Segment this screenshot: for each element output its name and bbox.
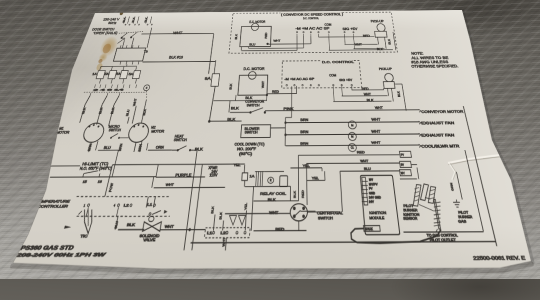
switch blade 2 xyxy=(131,32,137,37)
arrow into node xyxy=(117,40,122,43)
svg-text:CONTROLLER: CONTROLLER xyxy=(37,206,69,209)
svg-text:M: M xyxy=(351,136,354,139)
wire drop left xyxy=(251,187,253,231)
svg-text:WHT: WHT xyxy=(273,38,280,42)
svg-text:OTHERWISE SPECIFIED.: OTHERWISE SPECIFIED. xyxy=(411,64,459,69)
wire RED run xyxy=(254,230,307,232)
wire drop L3 xyxy=(147,28,152,48)
svg-text:COOL DOWN (TC): COOL DOWN (TC) xyxy=(234,143,264,147)
wire pole3 down xyxy=(109,105,114,126)
rectifier circle xyxy=(268,177,274,183)
wire WHT run xyxy=(225,212,291,214)
svg-text:(93°C): (93°C) xyxy=(239,152,253,156)
svg-text:BLK: BLK xyxy=(234,34,239,40)
terminal strip dashed box xyxy=(204,228,250,238)
svg-text:SIG +5V: SIG +5V xyxy=(342,27,359,31)
L mark xyxy=(78,211,82,215)
wire drop L1 xyxy=(122,40,124,48)
svg-text:MV/PV: MV/PV xyxy=(369,184,379,187)
terminal pin xyxy=(119,45,122,48)
blower switch box xyxy=(241,125,271,138)
svg-text:BRN: BRN xyxy=(300,118,308,122)
wire into L2 xyxy=(222,221,225,231)
svg-text:D.C. MOTOR: D.C. MOTOR xyxy=(243,67,265,72)
D.C. motor box xyxy=(238,75,268,95)
relay contact bars xyxy=(146,197,148,208)
wire long drop A xyxy=(184,151,197,250)
terminal pin xyxy=(131,61,134,65)
svg-text:WHT: WHT xyxy=(371,130,381,134)
svg-text:BLK: BLK xyxy=(227,118,236,122)
svg-text:COM: COM xyxy=(329,73,337,78)
spark gap triangles xyxy=(229,215,237,224)
terminal pin xyxy=(119,61,122,65)
svg-text:BLU: BLU xyxy=(364,168,372,171)
svg-text:PICK-UP: PICK-UP xyxy=(370,19,384,23)
wire RED to gas valve xyxy=(298,154,399,157)
junction xyxy=(120,37,123,39)
pilot igniter electrode B xyxy=(418,184,431,201)
svg-text:230-240 V: 230-240 V xyxy=(103,17,121,21)
svg-text:WHT: WHT xyxy=(165,184,174,187)
wire WHT relay feed xyxy=(154,186,225,188)
wire purple row xyxy=(112,163,244,166)
svg-text:L1: L1 xyxy=(147,204,153,207)
junction xyxy=(188,228,191,231)
contactor coil C1 xyxy=(348,144,357,152)
switch blade 1 xyxy=(122,33,128,38)
junction ec motor xyxy=(266,43,268,45)
motor terminal xyxy=(133,125,135,127)
terminal pin xyxy=(125,45,128,48)
diagram frame bottom border xyxy=(191,242,496,243)
wire row conveyor motor xyxy=(265,109,419,112)
high voltage spark cable xyxy=(351,228,444,243)
terminal pin xyxy=(137,61,140,65)
svg-text:GND: GND xyxy=(369,193,376,196)
pilot enclosure right border xyxy=(465,150,483,231)
pilot igniter electrode A xyxy=(410,184,424,206)
svg-text:IGNITION: IGNITION xyxy=(369,213,387,216)
terminal pin xyxy=(125,61,128,65)
svg-text:PICK-UP: PICK-UP xyxy=(379,67,393,72)
wire WHT down to fuse xyxy=(209,34,214,74)
solenoid valve SV1 xyxy=(142,222,152,231)
fuse 1A control xyxy=(243,165,246,173)
node supply terminals xyxy=(124,16,126,23)
svg-text:SENSOR: SENSOR xyxy=(403,218,419,221)
svg-text:ORN: ORN xyxy=(155,146,164,150)
svg-text:BURNER: BURNER xyxy=(458,216,474,219)
wire to red row xyxy=(298,221,300,231)
spark terminal box xyxy=(364,226,381,232)
wire YEL into T xyxy=(245,210,246,230)
svg-text:'OPEN' (FAILS): 'OPEN' (FAILS) xyxy=(93,31,118,35)
dashed lamp link xyxy=(145,91,148,99)
wire M1b down xyxy=(96,141,98,150)
wire purple stub xyxy=(156,176,205,178)
E.C. motor box xyxy=(240,26,271,46)
wire BLK blower row xyxy=(209,120,241,122)
svg-text:BLK #10: BLK #10 xyxy=(169,55,184,59)
svg-text:SOLENOID: SOLENOID xyxy=(139,235,161,239)
pilot burner body xyxy=(434,199,441,229)
fuse F4 xyxy=(120,71,129,79)
wire relay bottom bus xyxy=(245,185,291,187)
wire row cool blower xyxy=(286,144,420,147)
micro switch symbol xyxy=(111,134,118,138)
junction xyxy=(208,120,211,123)
svg-text:M: M xyxy=(351,125,354,128)
crease line xyxy=(446,151,540,163)
wire M2 feed2 xyxy=(132,106,136,124)
pilot bracket lines xyxy=(419,204,434,211)
svg-text:YEL: YEL xyxy=(245,202,248,210)
transformer T1 windings xyxy=(255,172,258,187)
svg-text:-M +M AC AC SP: -M +M AC AC SP xyxy=(296,27,330,31)
row chevrons xyxy=(419,109,421,112)
ground symbol xyxy=(456,200,457,202)
wire row exhaust fan 1 xyxy=(285,121,419,124)
ignition module box xyxy=(360,175,400,234)
node with circle xyxy=(123,38,125,40)
terminal pin xyxy=(131,45,134,48)
svg-text:50Hz: 50Hz xyxy=(108,21,117,25)
terminal ticks row xyxy=(94,84,95,88)
wire pole1 down xyxy=(80,105,85,123)
door switch S1 contacts (dashed link) xyxy=(119,32,143,34)
junction dc motor xyxy=(266,94,268,96)
svg-text:BRN: BRN xyxy=(300,143,309,146)
wire BLK#10 xyxy=(143,60,216,63)
wire module MV to valve xyxy=(405,157,408,175)
wire top of relay parts xyxy=(265,170,285,172)
svg-text:BURNER: BURNER xyxy=(403,209,419,212)
wire BLU run xyxy=(98,149,118,151)
wire GRN diagonal xyxy=(38,166,52,167)
svg-text:L2: L2 xyxy=(220,232,225,236)
svg-text:IGNITION: IGNITION xyxy=(403,214,421,217)
motor symbol M2 xyxy=(348,133,357,141)
svg-text:E.C. MOTOR: E.C. MOTOR xyxy=(249,20,266,24)
gas valve terminal BV xyxy=(400,161,412,167)
motor M1 xyxy=(81,123,106,142)
motor symbol M xyxy=(348,121,357,129)
svg-text:COOL/BLWR MTR: COOL/BLWR MTR xyxy=(421,145,460,149)
wire BLU drop xyxy=(115,216,118,229)
svg-text:BLK: BLK xyxy=(366,99,374,103)
junction xyxy=(284,134,286,137)
wire M2b down xyxy=(140,141,142,152)
wire left drop xyxy=(46,166,50,177)
wire BLK heat run xyxy=(193,149,197,151)
wire drop L2 xyxy=(131,38,134,48)
svg-text:WHT: WHT xyxy=(355,42,363,46)
svg-text:BLU: BLU xyxy=(249,42,255,46)
D.C. motor circle xyxy=(248,72,256,80)
terminals L1 L2 T T xyxy=(212,231,214,234)
BRN bus vertical xyxy=(284,118,286,146)
svg-text:RED: RED xyxy=(264,33,268,39)
pilot sensor rod xyxy=(426,186,439,203)
wire term1 drop xyxy=(86,207,88,216)
wire blower to bus xyxy=(270,127,285,129)
wire M2 down xyxy=(134,142,136,152)
wire WHT to control xyxy=(142,32,214,35)
wire GND drop xyxy=(457,172,463,199)
svg-text:BLK: BLK xyxy=(377,47,384,51)
solenoid coil circle xyxy=(148,216,154,221)
wire fuse to node (leaning) xyxy=(209,86,215,121)
svg-text:D.C. CONTROL: D.C. CONTROL xyxy=(303,16,319,20)
diagram frame right border xyxy=(463,106,497,246)
conveyor DC speed control dashed box xyxy=(229,12,398,53)
temperature controller dashed boundary xyxy=(76,195,169,198)
valve contact with arrow xyxy=(152,211,161,215)
fuse F1 9A xyxy=(211,74,220,87)
motor M2 xyxy=(127,123,150,142)
terminal box TB1 xyxy=(113,48,145,61)
junction xyxy=(284,121,286,123)
wire pole2 down xyxy=(97,105,102,125)
centrifugal switch xyxy=(290,204,307,221)
indicator lamp G xyxy=(143,85,150,91)
wire centrifugal a xyxy=(297,155,299,201)
wire WHT to gas valve xyxy=(306,162,399,165)
svg-text:WHT: WHT xyxy=(371,118,381,122)
wire motor bottom xyxy=(213,99,266,101)
gas valve terminal WV xyxy=(399,170,411,176)
svg-text:L1: L1 xyxy=(207,232,212,236)
wire centrifugal b xyxy=(305,164,308,205)
fuse F3 xyxy=(108,71,117,79)
wire drop mid xyxy=(289,186,291,201)
svg-text:22500-0061 REV. E: 22500-0061 REV. E xyxy=(473,256,527,262)
wire motor down xyxy=(235,95,237,101)
heat switch symbol xyxy=(172,149,178,151)
wire pickup right down xyxy=(402,84,406,111)
contactor linkage dashed xyxy=(84,91,146,94)
svg-text:115V: 115V xyxy=(209,174,218,179)
svg-text:C1: C1 xyxy=(351,147,354,150)
wire hi-limit feed xyxy=(52,165,80,167)
wire term4 drop xyxy=(117,207,119,216)
speed control wiring xyxy=(241,49,297,51)
svg-text:RED: RED xyxy=(361,87,369,91)
svg-text:RED: RED xyxy=(357,152,366,155)
wire to solenoid xyxy=(118,229,144,231)
svg-text:WHT: WHT xyxy=(360,160,369,163)
wire BLK run xyxy=(254,200,299,202)
switch stub xyxy=(301,210,316,212)
wire M1 down xyxy=(89,142,92,152)
switch blade xyxy=(294,210,300,216)
control 2 wiring xyxy=(352,89,384,91)
wire into L1 xyxy=(213,215,215,231)
motor terminal xyxy=(88,125,90,127)
wire lamp to M2 xyxy=(141,100,146,123)
wire WHT from valve xyxy=(160,229,206,231)
fuse F2 1A xyxy=(96,71,105,79)
pilot enclosure bottom border xyxy=(404,231,484,233)
svg-text:MODULE: MODULE xyxy=(369,217,385,220)
svg-text:NOTE:: NOTE: xyxy=(411,51,424,55)
wire from box to fuses xyxy=(125,65,128,67)
svg-text:L2: L2 xyxy=(123,205,129,208)
conveyor switch symbol xyxy=(230,111,251,113)
terminal pin xyxy=(137,45,140,48)
hi-limit switch contacts xyxy=(83,174,84,178)
svg-text:NO. 200°F: NO. 200°F xyxy=(237,147,257,151)
wire BLU drop to bus xyxy=(112,150,118,177)
wire BLU to module xyxy=(340,170,399,172)
fuse F5 xyxy=(132,71,140,79)
wire row exhaust fan 2 xyxy=(286,133,420,136)
svg-text:BRN: BRN xyxy=(300,130,308,134)
wire to purple row xyxy=(156,165,158,177)
arrow to gas control xyxy=(435,229,438,232)
svg-text:208-240V 60Hz 1PH 3W: 208-240V 60Hz 1PH 3W xyxy=(13,251,109,259)
E.C. motor circle xyxy=(251,23,259,30)
wire feed to fuses xyxy=(101,65,137,67)
wire M2 feed1 xyxy=(127,117,129,124)
wire ORN run xyxy=(148,149,172,151)
svg-text:2 4 6 14: 2 4 6 14 xyxy=(93,90,127,93)
controller terminals xyxy=(87,204,90,206)
svg-text:BLK: BLK xyxy=(294,190,297,198)
wire long drop B xyxy=(192,165,202,251)
svg-text:WHT: WHT xyxy=(371,142,381,145)
wire POW drop xyxy=(105,165,113,197)
wire hi-limit bus xyxy=(50,176,156,179)
wire WHT drop xyxy=(225,238,226,251)
gas valve terminal PV xyxy=(399,151,411,157)
2nd d.c. control dashed box xyxy=(282,60,362,88)
svg-text:WHT: WHT xyxy=(364,93,372,97)
svg-text:SWITCH: SWITCH xyxy=(244,131,258,135)
svg-text:D.C. CONTROL: D.C. CONTROL xyxy=(322,59,355,64)
contactor M1 poles xyxy=(85,96,90,105)
svg-text:SWITCH: SWITCH xyxy=(318,217,334,220)
wire BLK pickup xyxy=(393,32,396,50)
svg-text:COM: COM xyxy=(324,23,331,27)
stain blobs xyxy=(97,36,120,57)
wire fuse2 top xyxy=(100,67,101,71)
wire RED link xyxy=(267,93,297,95)
relay component box xyxy=(280,176,288,187)
svg-text:RED: RED xyxy=(363,34,370,38)
svg-text:RED: RED xyxy=(302,190,305,198)
controller arrow xyxy=(64,226,72,229)
module connector strip xyxy=(362,177,368,205)
thermocouple TIC probe xyxy=(78,209,95,233)
